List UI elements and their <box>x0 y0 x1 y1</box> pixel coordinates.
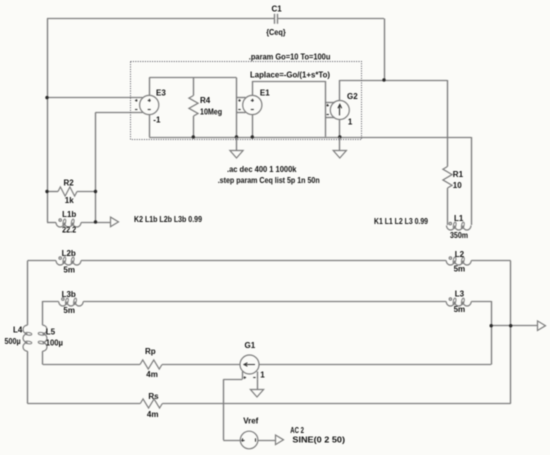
svg-text:L5: L5 <box>46 328 56 337</box>
svg-text:4m: 4m <box>146 370 158 379</box>
svg-text:10Meg: 10Meg <box>200 107 222 116</box>
svg-text:C1: C1 <box>272 5 283 14</box>
svg-text:1k: 1k <box>65 196 74 205</box>
svg-text:R1: R1 <box>453 170 464 179</box>
svg-text:-1: -1 <box>153 115 161 124</box>
svg-text:E1: E1 <box>260 89 270 98</box>
svg-text:G1: G1 <box>245 341 256 350</box>
svg-text:L2b: L2b <box>62 249 76 258</box>
svg-text:22.2: 22.2 <box>62 226 76 235</box>
svg-text:1: 1 <box>260 371 265 380</box>
svg-text:5m: 5m <box>454 265 466 274</box>
svg-text:.step param Ceq list 5p 1n 50n: .step param Ceq list 5p 1n 50n <box>218 176 320 185</box>
svg-text:L1: L1 <box>454 214 464 223</box>
svg-text:350m: 350m <box>450 231 468 240</box>
svg-text:L3b: L3b <box>62 290 76 299</box>
svg-text:5m: 5m <box>63 266 75 275</box>
svg-text:SINE(0 2 50): SINE(0 2 50) <box>292 436 345 445</box>
svg-text:500µ: 500µ <box>5 337 21 346</box>
svg-text:4m: 4m <box>147 410 159 419</box>
svg-text:L1b: L1b <box>62 210 76 219</box>
svg-text:Vref: Vref <box>243 417 258 426</box>
svg-text:AC 2: AC 2 <box>290 426 304 435</box>
svg-text:Rp: Rp <box>145 347 156 356</box>
svg-text:R2: R2 <box>64 178 75 187</box>
svg-text:100µ: 100µ <box>46 339 64 348</box>
svg-text:L4: L4 <box>13 326 23 335</box>
svg-text:Laplace=-Go/(1+s*To): Laplace=-Go/(1+s*To) <box>250 70 330 79</box>
svg-text:5m: 5m <box>63 306 75 315</box>
svg-text:1: 1 <box>348 118 353 127</box>
svg-text:Rs: Rs <box>148 392 159 401</box>
svg-text:L3: L3 <box>455 289 465 298</box>
svg-text:{Ceq}: {Ceq} <box>266 28 286 37</box>
svg-text:K2 L1b L2b L3b 0.99: K2 L1b L2b L3b 0.99 <box>134 215 202 224</box>
svg-text:.param Go=10 To=100u: .param Go=10 To=100u <box>249 52 331 61</box>
svg-text:G2: G2 <box>347 92 358 101</box>
svg-text:10: 10 <box>453 181 462 190</box>
svg-text:R4: R4 <box>200 96 211 105</box>
svg-text:.ac dec 400 1 1000k: .ac dec 400 1 1000k <box>227 165 297 174</box>
svg-text:K1 L1 L2 L3 0.99: K1 L1 L2 L3 0.99 <box>374 217 428 226</box>
svg-text:E3: E3 <box>156 89 166 98</box>
svg-text:5m: 5m <box>454 305 466 314</box>
svg-text:L2: L2 <box>455 250 465 259</box>
